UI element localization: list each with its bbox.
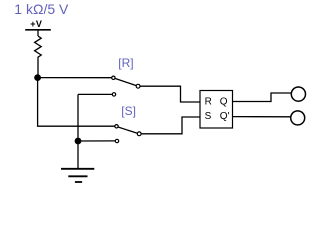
- svg-text:[S]: [S]: [121, 104, 136, 118]
- svg-text:R: R: [205, 97, 212, 108]
- svg-text:+V: +V: [30, 19, 42, 29]
- svg-text:S: S: [205, 111, 212, 122]
- svg-text:[R]: [R]: [118, 56, 133, 70]
- svg-text:1 kΩ/5 V: 1 kΩ/5 V: [14, 1, 69, 17]
- svg-text:Q': Q': [220, 111, 230, 122]
- svg-text:Q: Q: [220, 97, 228, 108]
